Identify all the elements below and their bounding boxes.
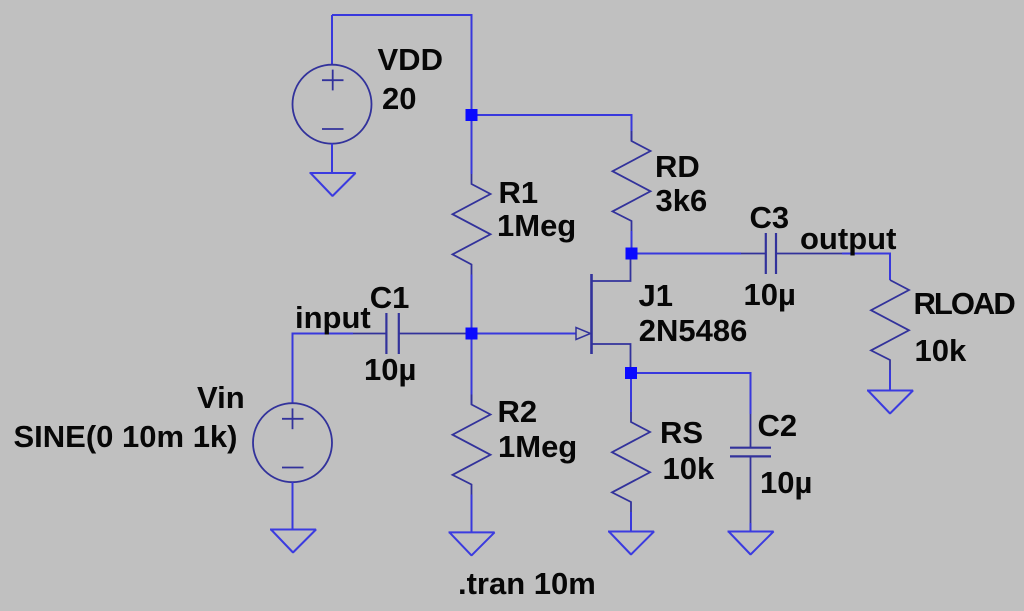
wire Vin top lead [292, 333, 294, 404]
wire VDD rail to RD [472, 115, 632, 141]
label SINE directive [14, 421, 238, 452]
ground below C2 [728, 532, 774, 555]
label 1Meg (R2) [498, 431, 577, 462]
wire gate junction to JFET arrow [478, 333, 577, 335]
junction node gate [466, 328, 478, 340]
wire gate junction down to R2 [471, 340, 473, 405]
label R2 [498, 396, 538, 427]
wire input segment [293, 333, 354, 335]
label 10u (C1) [364, 354, 416, 385]
capacitor C3 [741, 233, 842, 274]
wire RLOAD top lead [889, 270, 891, 280]
ground below R2 [449, 532, 495, 555]
junction node drain [626, 248, 638, 260]
label R1 [499, 177, 539, 208]
wire VDD source top lead [331, 15, 333, 65]
label 10u (C2) [760, 467, 812, 498]
label 2N5486 [639, 315, 748, 346]
resistor RLOAD [871, 280, 909, 370]
junction node VDD rail [466, 109, 478, 121]
label 10k (RS) [663, 453, 715, 484]
wire C3 to RLOAD corner [842, 254, 890, 271]
ground below RLOAD [867, 391, 913, 414]
resistor RD [613, 131, 651, 231]
label J1 [639, 280, 673, 311]
wire R2 bottom to ground [471, 495, 473, 533]
ground below RS [608, 532, 654, 555]
label 10k (RLOAD) [915, 335, 967, 366]
label 20 [382, 83, 416, 114]
voltage source Vin [253, 403, 332, 482]
wire source junction down to RS [630, 379, 632, 412]
label 3k6 [656, 185, 708, 216]
label Vin [197, 382, 245, 413]
label C1 [370, 282, 410, 313]
resistor RS [612, 412, 650, 512]
wire RD bottom to drain junction [631, 231, 633, 248]
label RLOAD [914, 288, 1014, 319]
wire source junction to C2 [637, 373, 751, 414]
wire Vin bottom lead [292, 482, 294, 529]
resistor R1 [453, 174, 491, 275]
junction node source [625, 367, 637, 379]
wire VDD rail vertical to R1 [471, 14, 473, 174]
label 1Meg (R1) [497, 210, 576, 241]
ground below VDD [310, 173, 356, 196]
ground below Vin [270, 530, 316, 553]
label RD [655, 151, 700, 182]
label C3 [750, 202, 790, 233]
wire R1 bottom to gate junction [471, 275, 473, 329]
transistor J1 (NJF) [576, 260, 631, 368]
label output [800, 223, 896, 254]
capacitor C2 [730, 414, 771, 523]
voltage source VDD [293, 65, 372, 144]
wire RS bottom to ground [630, 512, 632, 532]
wire drain junction to C3 [638, 253, 742, 255]
wire RLOAD bottom to ground [889, 370, 891, 391]
resistor R2 [453, 395, 491, 495]
spice directive .tran [458, 568, 596, 599]
label 10u (C3) [744, 279, 796, 310]
label input [295, 302, 371, 333]
label RS [660, 417, 703, 448]
wire C2 bottom to ground [750, 523, 752, 532]
label C2 [758, 410, 798, 441]
wire top rail horizontal [332, 14, 472, 16]
label VDD [378, 44, 443, 75]
wire VDD source bottom lead [331, 144, 333, 173]
capacitor C1 [353, 313, 466, 354]
